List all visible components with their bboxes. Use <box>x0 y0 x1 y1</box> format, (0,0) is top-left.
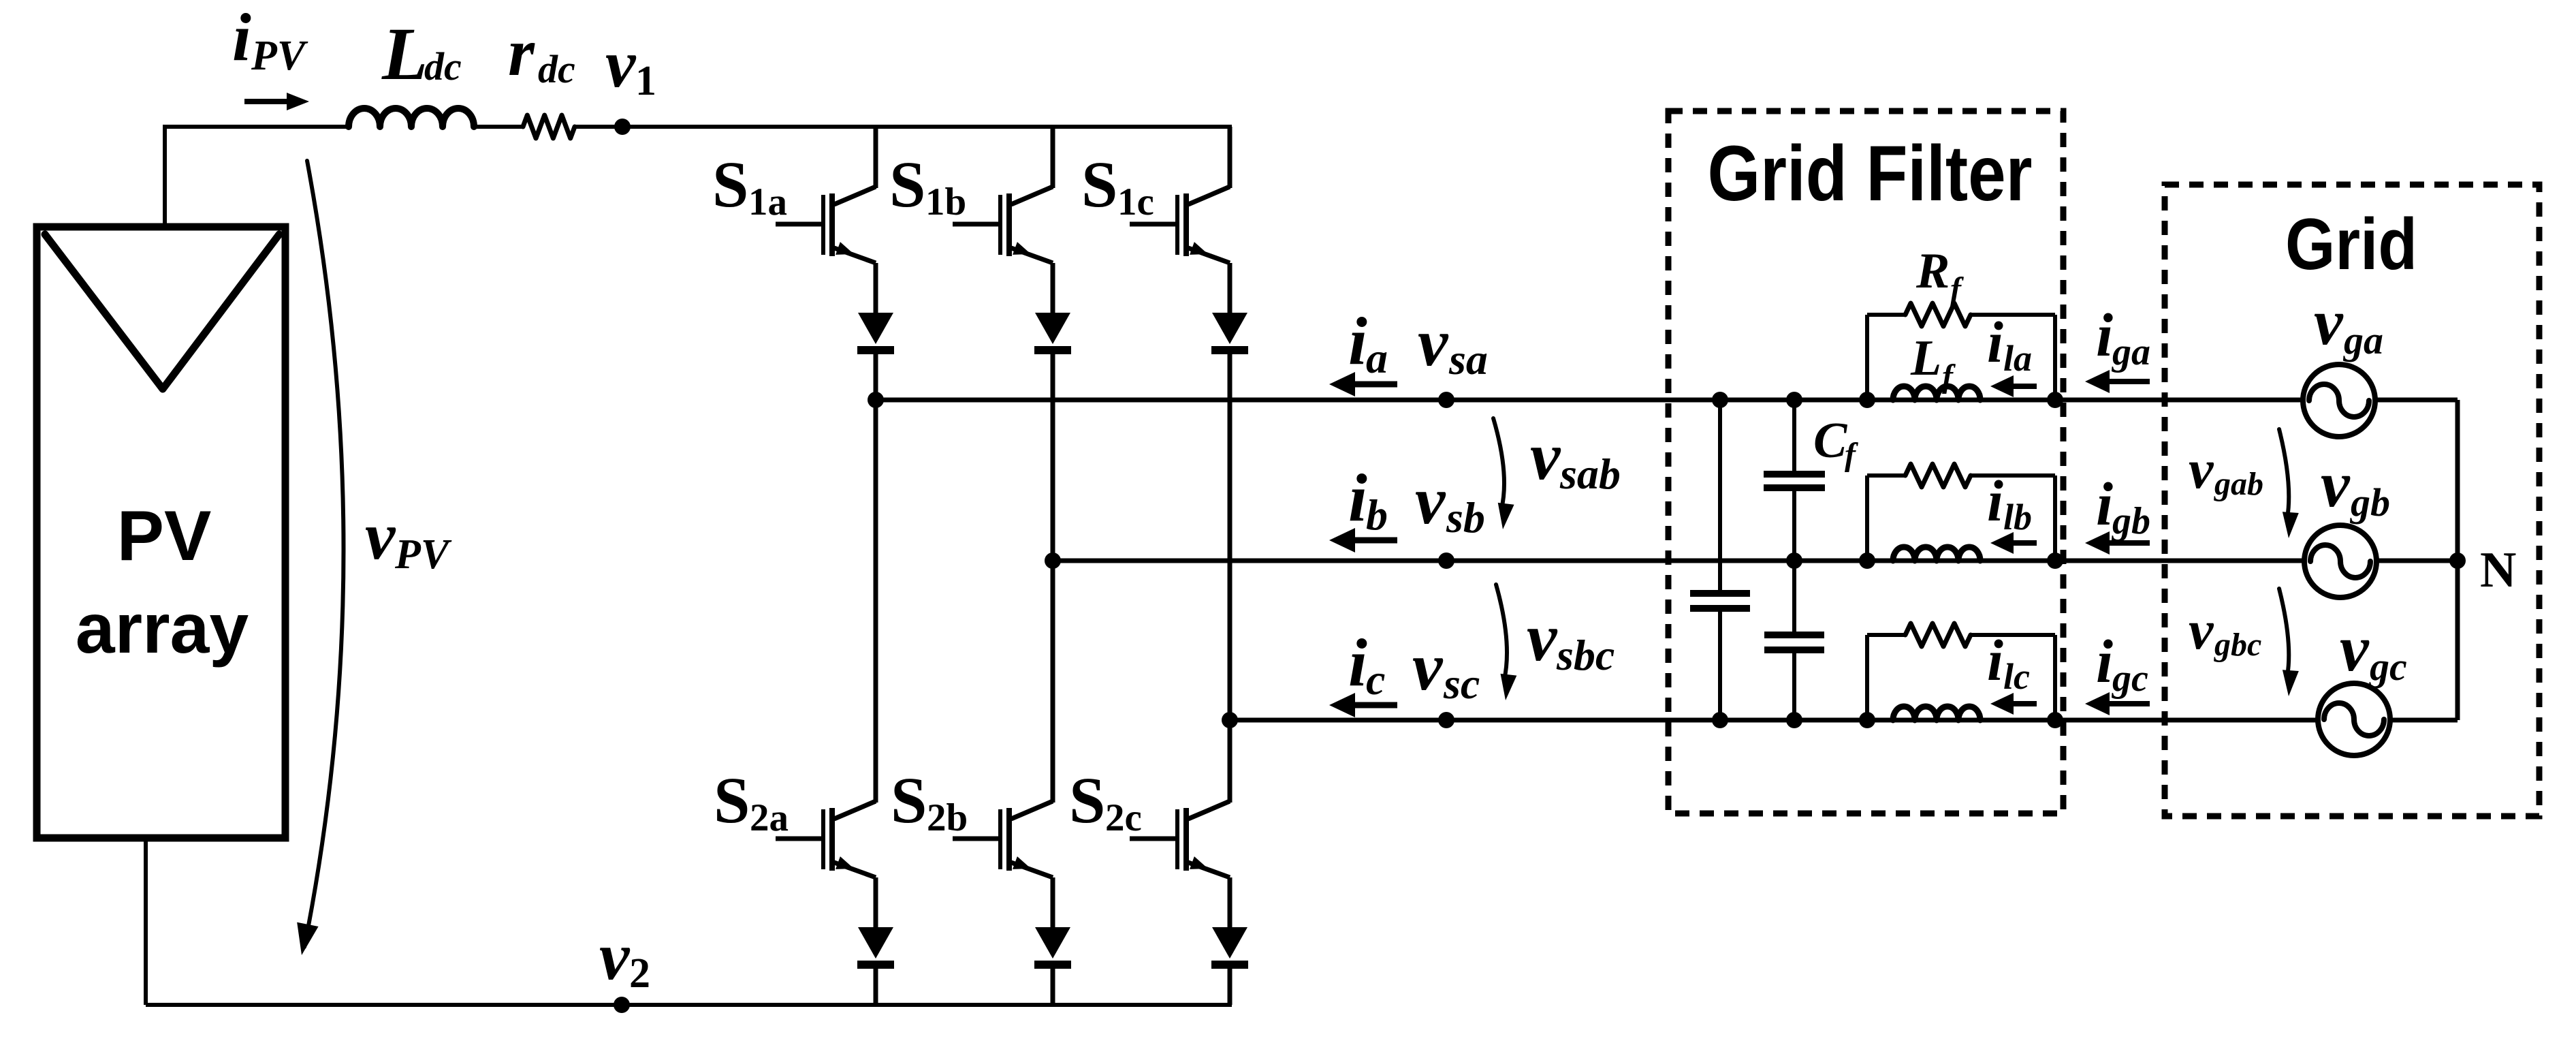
wire S1a collector rail <box>874 127 878 188</box>
source v_gb <box>2304 448 2390 597</box>
svg-text:i: i <box>1348 303 1367 379</box>
wire phase b line <box>1053 559 2458 563</box>
label v_sc <box>1412 629 1480 708</box>
current arrow i_lc <box>1987 627 2037 715</box>
svg-text:Grid: Grid <box>2285 203 2417 285</box>
svg-text:S: S <box>714 764 750 837</box>
resistor Rf phase c <box>1905 623 1971 647</box>
wire PV bottom lead <box>144 838 148 1005</box>
wire bottom bus <box>146 1003 1232 1007</box>
capacitor Cbc branch wire <box>1792 561 1796 720</box>
svg-text:i: i <box>2096 471 2113 538</box>
svg-text:a: a <box>1366 334 1388 382</box>
inductor Lf phase b <box>1893 547 1980 561</box>
transistor S1c (IGBT) <box>1130 187 1248 350</box>
inductor Lf phase a <box>1893 386 1980 400</box>
capacitor Cab <box>1764 474 1825 488</box>
svg-text:sb: sb <box>1446 493 1485 542</box>
wire S2c collector rail <box>1228 720 1233 803</box>
capacitor Cab branch wire <box>1792 400 1796 561</box>
svg-text:v: v <box>2321 448 2351 520</box>
svg-text:sc: sc <box>1443 659 1480 708</box>
capacitor Cbc <box>1764 635 1824 650</box>
svg-text:2: 2 <box>629 950 650 997</box>
wire S1b to phase line <box>1051 350 1055 561</box>
label S1b <box>889 148 966 223</box>
svg-text:S: S <box>891 764 927 837</box>
transistor S1a (IGBT) <box>776 187 894 350</box>
svg-text:gb: gb <box>2349 480 2390 525</box>
label v_sa <box>1418 305 1488 384</box>
svg-text:i: i <box>232 0 251 75</box>
svg-text:PV: PV <box>117 497 212 576</box>
voltage arrow v_sbc <box>1496 585 1615 700</box>
resistor Rf phase a <box>1905 303 1971 326</box>
svg-text:1b: 1b <box>925 181 966 223</box>
svg-text:N: N <box>2480 542 2516 598</box>
svg-text:L: L <box>1910 330 1941 386</box>
svg-text:dc: dc <box>424 44 462 89</box>
wire grid neutral vertical <box>2455 400 2460 720</box>
transistor S2b (IGBT) <box>953 801 1071 965</box>
transistor S1b (IGBT) <box>953 187 1071 350</box>
node phase b junctions <box>1045 552 2063 569</box>
svg-text:i: i <box>1987 309 2003 375</box>
voltage arrow v_sab <box>1493 418 1621 529</box>
current arrow i_gc <box>2085 628 2150 715</box>
svg-text:Grid Filter: Grid Filter <box>1708 130 2033 217</box>
svg-text:lc: lc <box>2003 656 2030 697</box>
svg-text:b: b <box>1366 491 1388 539</box>
svg-text:v: v <box>2189 599 2214 661</box>
voltage arrow v_gab <box>2189 429 2299 538</box>
svg-text:v: v <box>2314 285 2344 358</box>
svg-text:sab: sab <box>1559 450 1621 498</box>
svg-text:i: i <box>1987 468 2003 533</box>
node v2 <box>599 918 650 1013</box>
svg-text:gab: gab <box>2214 466 2263 502</box>
svg-text:i: i <box>2096 302 2113 369</box>
current arrow i_b <box>1329 460 1397 552</box>
svg-text:v: v <box>2340 612 2370 685</box>
label Cf <box>1813 413 1858 473</box>
svg-text:i: i <box>1987 627 2003 693</box>
current arrow i_PV <box>232 0 309 110</box>
svg-text:gc: gc <box>2111 657 2148 700</box>
svg-text:v: v <box>1415 463 1446 538</box>
svg-text:L: L <box>381 12 428 95</box>
svg-text:sa: sa <box>1448 335 1488 384</box>
wire PV top lead <box>163 125 167 227</box>
svg-text:1: 1 <box>635 58 656 104</box>
wire S2a to bottom bus <box>874 965 878 1005</box>
transistor S2c (IGBT) <box>1130 801 1248 965</box>
wire S1c collector rail <box>1228 127 1233 188</box>
node phase a junctions <box>868 392 2063 408</box>
label S1a <box>712 148 787 223</box>
PV array box <box>37 227 285 838</box>
svg-text:gbc: gbc <box>2214 627 2261 663</box>
node phase c junctions <box>1222 712 2063 728</box>
svg-text:i: i <box>1348 625 1367 700</box>
svg-text:v: v <box>2189 438 2214 500</box>
label S1c <box>1081 148 1154 223</box>
svg-text:v: v <box>1412 629 1444 704</box>
wire S1c to phase line <box>1228 350 1233 720</box>
capacitor Cca branch wire <box>1718 400 1722 720</box>
Grid box <box>2165 185 2539 816</box>
inductor L_dc <box>349 12 474 127</box>
wire phase a line <box>876 398 2458 403</box>
label v_sb <box>1415 463 1485 542</box>
svg-text:i: i <box>2096 628 2113 696</box>
wire Rc loop <box>1867 635 2055 720</box>
svg-text:C: C <box>1813 413 1848 469</box>
svg-text:S: S <box>889 148 925 221</box>
source v_gc <box>2318 612 2407 756</box>
svg-text:2b: 2b <box>927 796 968 839</box>
svg-text:PV: PV <box>394 531 452 578</box>
svg-text:i: i <box>1348 460 1367 535</box>
current arrow i_gb <box>2085 471 2150 555</box>
svg-text:v: v <box>1418 305 1449 380</box>
wire S2c to bottom bus <box>1228 965 1233 1005</box>
svg-text:lb: lb <box>2003 497 2032 538</box>
svg-text:v: v <box>1527 600 1558 675</box>
transistor S2a (IGBT) <box>776 801 894 965</box>
wire S1a to phase line <box>874 350 878 400</box>
svg-text:ga: ga <box>2111 331 2150 373</box>
svg-text:ga: ga <box>2342 318 2383 362</box>
wire S1b collector rail <box>1051 127 1055 188</box>
Grid Filter box <box>1668 111 2063 813</box>
wire S2b to bottom bus <box>1051 965 1055 1005</box>
svg-text:r: r <box>508 14 535 90</box>
svg-text:PV: PV <box>251 33 308 79</box>
label Rf <box>1915 243 1964 307</box>
label S2b <box>891 764 968 839</box>
wire S2a collector rail <box>874 400 878 803</box>
voltage arrow v_PV <box>297 161 452 955</box>
resistor Rf phase b <box>1905 464 1971 487</box>
svg-text:sbc: sbc <box>1556 631 1615 679</box>
svg-text:la: la <box>2003 338 2032 379</box>
current arrow i_la <box>1987 309 2037 397</box>
capacitor Cca <box>1690 593 1750 608</box>
svg-text:dc: dc <box>538 47 575 91</box>
svg-text:v: v <box>599 918 631 994</box>
label S2c <box>1069 764 1142 839</box>
svg-text:S: S <box>1081 148 1117 221</box>
svg-text:2c: 2c <box>1105 796 1142 839</box>
svg-text:v: v <box>605 26 637 102</box>
svg-text:1c: 1c <box>1117 181 1154 223</box>
wire S2b collector rail <box>1051 561 1055 803</box>
node v1 <box>605 26 656 135</box>
current arrow i_a <box>1329 303 1397 396</box>
svg-text:R: R <box>1915 243 1950 299</box>
inductor Lf phase c <box>1893 706 1980 720</box>
label Lf <box>1910 330 1956 394</box>
svg-text:S: S <box>712 148 748 221</box>
svg-text:c: c <box>1366 655 1385 704</box>
wire Rb loop <box>1867 476 2055 561</box>
svg-text:array: array <box>76 589 249 668</box>
wire top bus <box>165 125 1232 129</box>
svg-text:gb: gb <box>2111 500 2150 542</box>
source v_ga <box>2303 285 2383 437</box>
wire phase c line <box>1230 718 2458 723</box>
svg-text:v: v <box>365 498 396 574</box>
svg-text:v: v <box>1530 418 1561 494</box>
svg-text:gc: gc <box>2368 644 2407 689</box>
current arrow i_lb <box>1987 468 2037 554</box>
svg-text:S: S <box>1069 764 1105 837</box>
label S2a <box>714 764 789 839</box>
node N <box>2449 542 2516 598</box>
svg-text:1a: 1a <box>748 181 787 223</box>
resistor r_dc <box>508 14 575 138</box>
current arrow i_ga <box>2085 302 2150 393</box>
wire Ra loop <box>1867 315 2055 400</box>
current arrow i_c <box>1329 625 1397 717</box>
svg-text:2a: 2a <box>750 796 789 839</box>
voltage arrow v_gbc <box>2189 589 2299 696</box>
